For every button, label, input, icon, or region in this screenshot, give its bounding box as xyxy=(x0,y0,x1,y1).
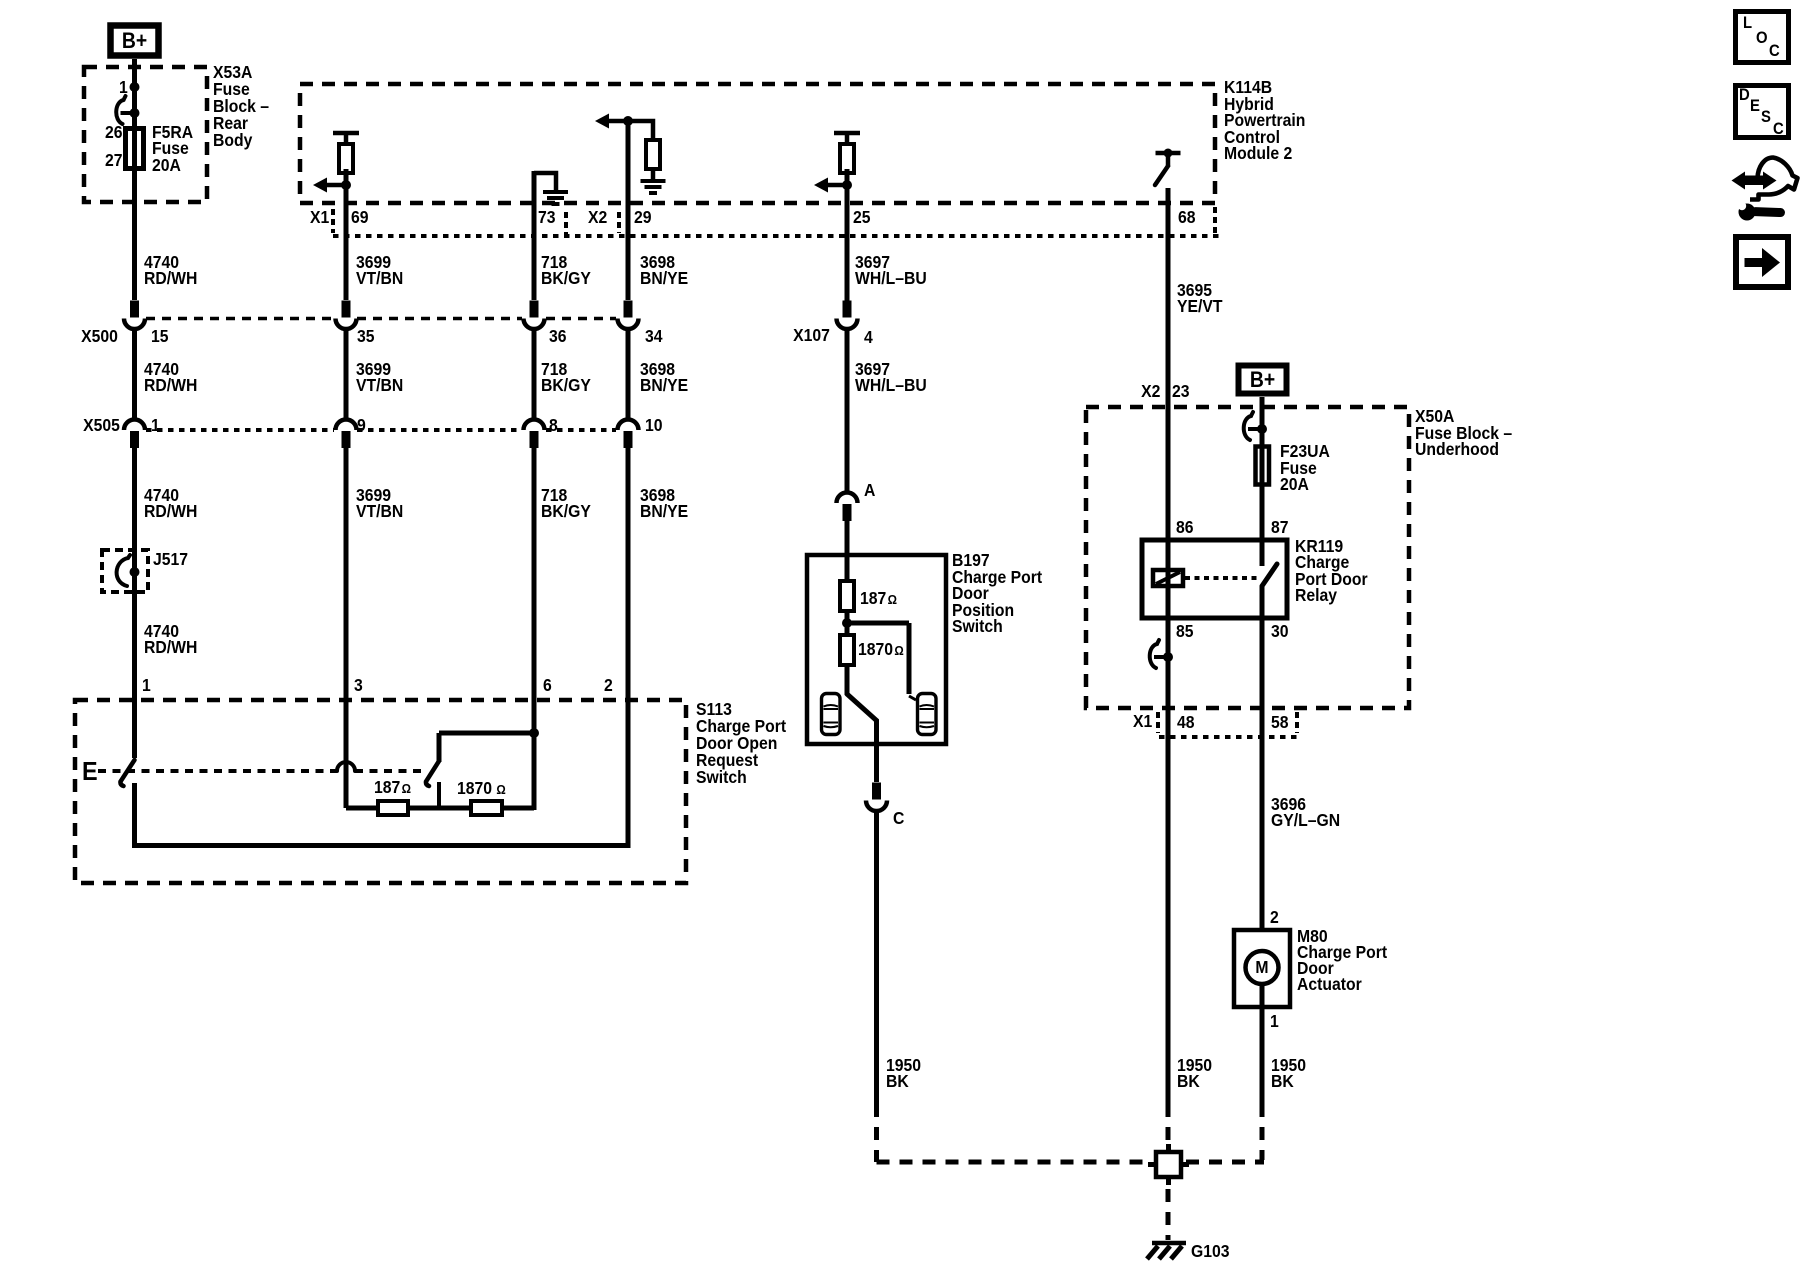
splice J517 (dashed box) xyxy=(102,550,148,592)
wire 3697 WH/L-BU X107 to B197 pin A xyxy=(845,329,850,493)
clip terminal at F23UA xyxy=(1244,412,1267,440)
wire 718 BK/GY X505 to S113 pin 6 xyxy=(532,448,537,703)
wire S113 pin 2 riser xyxy=(626,702,631,848)
resistor in K114B (pin 25 pull-up) xyxy=(834,133,860,173)
relay KR119 Charge Port Door Relay box xyxy=(1142,540,1287,618)
contact tick at right car icon xyxy=(909,696,916,700)
icon vehicle door-closed position (B197) xyxy=(821,694,840,735)
connector X107 pin 4 xyxy=(837,301,858,330)
connector X505 pin 10 xyxy=(618,420,639,449)
switch blade S113 (resistor select) xyxy=(426,761,439,786)
connector face dotted line (K114B) xyxy=(333,234,1222,238)
wire 718 BK/GY module pin 73 xyxy=(532,171,537,300)
signal output arrow K114B pin 29 xyxy=(595,114,633,129)
wire 3698 BN/YE X505 to S113 pin 2 xyxy=(626,448,631,703)
fuse block X53A Fuse Block - Rear Body (dashed) xyxy=(84,67,207,202)
icon LOC box xyxy=(1736,12,1789,63)
mech dotted line from E xyxy=(98,769,337,773)
ground symbol in K114B (pin 73) xyxy=(543,192,568,204)
connector X500 pin 35 xyxy=(336,301,357,330)
connector X500 pin 36 xyxy=(524,301,545,330)
wire 3698 BN/YE module pin 29 xyxy=(626,121,631,300)
resistor 187 ohm S113 xyxy=(378,801,408,815)
fuse F5RA 20A xyxy=(126,129,144,169)
icon forward arrow box xyxy=(1736,237,1788,287)
wire dashed to ground G103 xyxy=(1166,1189,1171,1240)
tick after 68 xyxy=(1213,207,1217,233)
connector terminal C of B197 xyxy=(866,783,887,812)
wire 3699 VT/BN X505 to S113 pin 3 xyxy=(344,448,349,703)
module K114B Hybrid Powertrain Control Module 2 (dashed) xyxy=(300,84,1215,203)
wire S113 junction to blade B xyxy=(439,731,534,736)
wire S113 blade to bottom run xyxy=(132,783,137,846)
wire 3699 VT/BN module pin 69 xyxy=(344,185,349,300)
wire resistor to node xyxy=(344,169,349,190)
connector X505 dotted line xyxy=(146,428,334,432)
wire B197 junction to fixed contact xyxy=(847,621,909,626)
wire resistor to node (pin 25) xyxy=(845,169,850,190)
relay switch blade (87-30) xyxy=(1262,564,1277,586)
wire B197 between resistors xyxy=(845,611,850,637)
relay coil diagonal xyxy=(1156,572,1180,584)
connector X505 pin 1 xyxy=(124,420,145,449)
fuse F23UA 20A xyxy=(1256,447,1270,485)
wire 1950 BK from B197 C xyxy=(874,811,879,1104)
wire S113 blade B drop xyxy=(437,733,442,762)
wire S113 resistor chain xyxy=(346,806,534,811)
icon navigation arrows + wrench xyxy=(1732,158,1798,221)
hop over wire 3699 xyxy=(337,762,355,771)
relay coil KR119 xyxy=(1153,570,1183,586)
actuator M80 Charge Port Door Actuator box xyxy=(1234,930,1290,1007)
mech dotted line to blade B xyxy=(355,769,424,773)
wire 4740 RD/WH X505 to S113 via J517 xyxy=(132,448,137,758)
wire B197 fixed contact drop xyxy=(907,623,912,694)
connector X505 pin 8 xyxy=(524,420,545,449)
wire S113 pin 3 to 187 ohm xyxy=(344,703,349,808)
resistor 1870 ohm B197 xyxy=(840,635,854,665)
splice J517 dot xyxy=(130,567,140,577)
splice J517 curl xyxy=(117,555,130,586)
wire 3697 WH/L-BU module pin 25 xyxy=(845,185,850,301)
icon vehicle door-open position (B197) xyxy=(917,694,936,735)
wire K114B pin 73 to internal ground xyxy=(534,173,556,190)
wire 4740 RD/WH from B+ through X53A xyxy=(132,59,137,300)
relay actuation dashed link xyxy=(1185,576,1257,580)
wire 718 BK/GY X500 to X505 xyxy=(532,329,537,420)
wire S113 pin 6 riser to resistor network xyxy=(532,703,537,810)
switch blade B197 position switch xyxy=(847,694,877,724)
battery feed B+ (X50A) xyxy=(1239,366,1287,394)
fuse block X50A Fuse Block - Underhood (dashed) xyxy=(1086,407,1409,708)
icon DESC box xyxy=(1736,86,1789,138)
resistor 187 ohm B197 xyxy=(840,581,854,611)
wire resistor to ground (K114B) xyxy=(651,169,656,181)
wire 1950 BK dashed into ground splice xyxy=(1166,1104,1171,1149)
wire B197 common to terminal C xyxy=(874,721,879,782)
connector face dotted line (X50A X1) xyxy=(1159,735,1297,739)
node pin 1 junction X53A xyxy=(130,82,140,92)
signal output arrow K114B pin 69 xyxy=(313,178,351,193)
ground G103 chassis symbol xyxy=(1147,1243,1186,1259)
wire 4740 RD/WH X500 to X505 xyxy=(132,329,137,420)
resistor in K114B (pin 29) xyxy=(646,140,660,169)
connector terminal A of B197 xyxy=(837,493,858,522)
wire 3698 BN/YE X500 to X505 xyxy=(626,329,631,420)
tick right of 58 xyxy=(1295,712,1299,733)
tick X2 xyxy=(617,212,621,233)
battery feed B+ (top left) xyxy=(111,26,159,56)
connector X500 pin 34 xyxy=(618,301,639,330)
ground symbol in K114B (pin 29) xyxy=(641,181,666,193)
node S113 junction pin 6 / blade branch xyxy=(529,728,539,738)
connector X500 pin 15 xyxy=(124,301,145,330)
wire 3699 VT/BN X500 to X505 xyxy=(344,329,349,420)
wire B+ feed through F23UA to relay pin 87 xyxy=(1260,397,1265,566)
wire 1950 BK dashed (M80) xyxy=(1260,1104,1265,1160)
wire 1950 BK from M80 pin 1 xyxy=(1260,984,1265,1104)
wire B197 1870 ohm to blade xyxy=(845,665,850,695)
switch B197 Charge Port Door Position Switch box xyxy=(807,555,946,744)
node B197 resistor junction xyxy=(842,618,852,628)
signal output arrow K114B pin 25 xyxy=(814,178,852,193)
tick after 73 xyxy=(564,212,568,234)
tick X1 xyxy=(331,209,335,233)
motor M80 symbol xyxy=(1246,951,1279,984)
wire 1950 BK dashed to splice xyxy=(874,1104,879,1162)
switch S113 Charge Port Door Open Request Switch (dashed) xyxy=(75,700,686,883)
wire B197 pin A lead-in xyxy=(845,520,850,583)
wire 3696 GY/L-GN relay pin 30 to M80 pin 2 xyxy=(1260,586,1265,932)
switch contact in K114B pin 68 xyxy=(1155,149,1181,186)
wire K114B pin 29 branch to sense resistor xyxy=(628,121,653,142)
wire S113 bottom run to pin 2 xyxy=(132,843,631,848)
connector X505 pin 9 xyxy=(336,420,357,449)
resistor in K114B (pin 69 pull-up) xyxy=(333,133,359,173)
switch blade S113 door-open request (pin 1) xyxy=(120,760,134,786)
clip terminal in X53A xyxy=(116,96,139,124)
wire 3695 YE/VT module pin 68 through relay coil to ground run xyxy=(1166,188,1171,1104)
contact tap between S113 resistors xyxy=(437,782,441,810)
resistor 1870 ohm S113 xyxy=(471,801,502,815)
connector X500 dashed line xyxy=(146,317,334,321)
wire 1950 BK dashed run to ground splice xyxy=(877,1160,1153,1165)
tick left of 48 xyxy=(1156,712,1160,733)
ground splice junction block xyxy=(1148,1144,1189,1185)
wire 1950 BK dashed to ground splice (right) xyxy=(1186,1160,1264,1165)
clip terminal X50A pin 85 lead xyxy=(1150,640,1173,668)
